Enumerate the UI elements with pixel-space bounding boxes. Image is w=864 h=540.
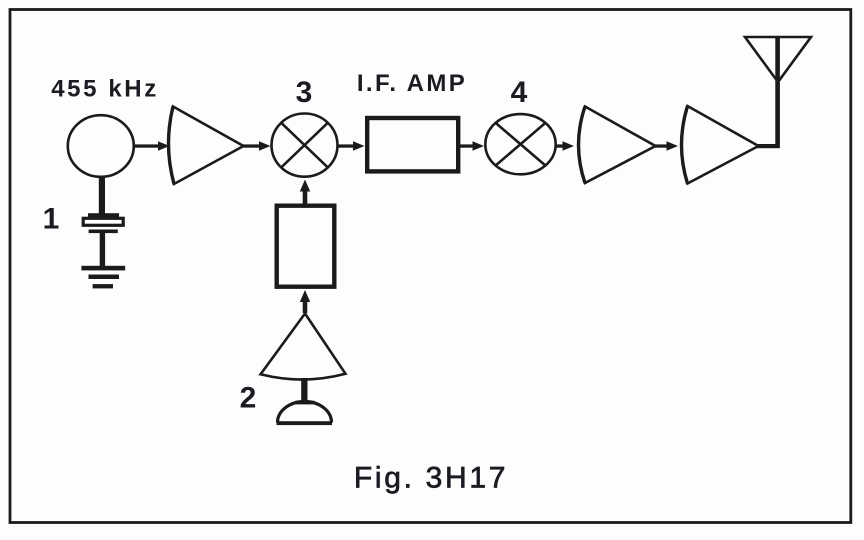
- svg-text:Fig. 3H17: Fig. 3H17: [354, 462, 508, 495]
- wire oscillator to amp A1 with arrow: [133, 144, 159, 147]
- svg-text:1: 1: [43, 203, 60, 236]
- mixer 3 circle: [272, 114, 338, 177]
- mixer 4 X: [496, 123, 546, 166]
- block I.F. AMP rectangle: [367, 118, 458, 171]
- svg-text:I.F. AMP: I.F. AMP: [357, 70, 467, 97]
- svg-text:455 kHz: 455 kHz: [51, 76, 159, 103]
- svg-text:3: 3: [296, 76, 313, 109]
- wire mic amp to modulator with arrow: [303, 297, 308, 313]
- amplifier A2: [579, 107, 656, 184]
- svg-text:4: 4: [511, 76, 528, 109]
- wire crystal to ground: [100, 233, 105, 266]
- amplifier A1: [168, 107, 243, 185]
- mixer 4 circle: [485, 114, 555, 174]
- crystal X1 bottom plate: [89, 230, 118, 234]
- microphone M1: [278, 402, 332, 423]
- wire mixer 4 to amp A2 with arrow: [556, 144, 568, 147]
- mixer 3 X: [281, 123, 328, 168]
- crystal X1 body: [83, 218, 123, 225]
- antenna: [745, 37, 811, 82]
- wire oscillator to crystal: [99, 178, 105, 214]
- block modulator rectangle: [277, 206, 335, 287]
- svg-text:2: 2: [240, 382, 257, 415]
- wire mixer 3 to IF amp with arrow: [337, 144, 358, 147]
- amplifier A3: [682, 106, 759, 184]
- wire IF amp to mixer 4 with arrow: [460, 144, 477, 147]
- wire amp A2 to amp A3 with arrow: [655, 144, 670, 147]
- oscillator OSC1 circle: [68, 115, 134, 177]
- wire modulator to mixer 3 with arrow: [303, 188, 308, 204]
- amplifier A4 microphone amp: [261, 314, 346, 380]
- wire mic to amp A4: [301, 378, 307, 404]
- wire amp A1 to mixer 3 with arrow: [243, 144, 263, 147]
- ground symbol: [81, 266, 125, 289]
- wire amp A3 to antenna: [757, 144, 780, 148]
- crystal X1 top plate: [88, 213, 119, 217]
